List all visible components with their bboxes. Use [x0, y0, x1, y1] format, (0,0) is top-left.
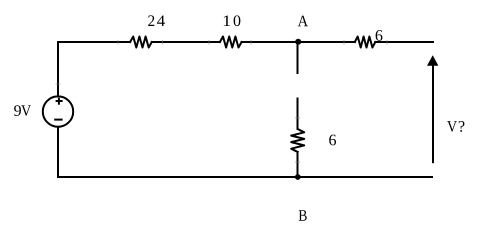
label 9V	[14, 105, 31, 116]
voltage source V1 circle	[43, 96, 73, 126]
wire R1 to R2	[152, 41, 220, 43]
node A junction dot	[295, 39, 301, 45]
resistor R2 zigzag (10 ohm)	[220, 37, 242, 48]
label B	[299, 210, 307, 221]
label 10	[224, 15, 241, 26]
wire bottom	[58, 176, 432, 178]
wire branch above R4	[297, 99, 299, 130]
pin tick marks	[56, 40, 388, 162]
resistor R4 vertical zigzag (6 ohm)	[291, 129, 304, 152]
resistor R1 zigzag (24 ohm)	[130, 37, 152, 48]
minus sign of source	[54, 119, 62, 121]
wire left vertical upper (corner to source top)	[57, 42, 59, 96]
wire R2 to node A and to R3	[242, 41, 355, 43]
label 24	[148, 15, 165, 26]
label 6 of R3	[376, 30, 383, 41]
label V?	[447, 121, 464, 132]
arrowhead of V?	[427, 55, 438, 65]
wire branch A upper stub	[297, 42, 299, 73]
resistor R3 zigzag (6 ohm)	[355, 37, 376, 48]
wire top-left to R1	[58, 41, 130, 43]
label A	[298, 16, 308, 27]
plus sign of source	[56, 100, 63, 102]
label 6 of R4	[329, 135, 336, 146]
wire R3 to top-right end	[375, 41, 433, 43]
wire left vertical lower (source bottom to corner)	[57, 127, 59, 177]
node B junction dot	[295, 174, 301, 180]
wire branch R4 to node B	[297, 152, 299, 177]
arrow V? shaft	[432, 64, 434, 162]
